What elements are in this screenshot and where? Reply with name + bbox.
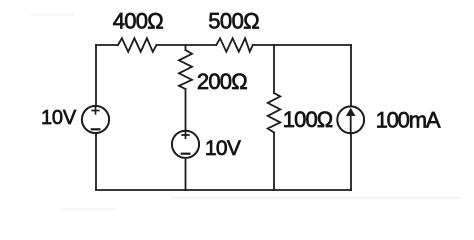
svg-text:10V: 10V [205, 137, 241, 160]
I1 arrow head [346, 108, 356, 116]
wire bottom (common node) [96, 189, 351, 191]
V2 plus sign [182, 132, 189, 139]
I1 arrow shaft [350, 112, 352, 132]
resistor R3 200ohm (vertical zigzag) [179, 50, 192, 89]
current source I1 100mA (circle) [337, 106, 364, 133]
wire left vertical lower [95, 134, 97, 190]
svg-text:10V: 10V [41, 107, 77, 129]
wire between R3 and V2 [185, 89, 187, 131]
V2 minus sign [182, 153, 190, 155]
svg-text:200Ω: 200Ω [197, 69, 247, 94]
svg-text:400Ω: 400Ω [113, 9, 164, 34]
voltage source V1 10V (circle) [82, 106, 109, 133]
svg-text:100mA: 100mA [376, 108, 441, 133]
wire right vertical upper [350, 45, 352, 107]
resistor R2 500ohm (horizontal zigzag) [216, 38, 253, 51]
wire stub top of R3 [185, 45, 187, 50]
wire below R4 [273, 133, 275, 191]
svg-text:100Ω: 100Ω [283, 107, 333, 132]
voltage source V2 10V (circle) [172, 131, 199, 158]
wire top-right (node between R2 and top-right corner, junction to R4 at x=274) [253, 44, 351, 46]
V1 minus sign [92, 128, 100, 130]
V1 plus sign [92, 107, 99, 114]
wire stub top of R4 [273, 45, 275, 93]
wire below V2 [185, 159, 187, 191]
wire left vertical upper [95, 45, 97, 106]
wire top-middle (node between R1 and R2, junction to R3 at x=185.5) [157, 44, 217, 46]
resistor R1 400ohm (horizontal zigzag) [118, 38, 157, 52]
svg-text:500Ω: 500Ω [208, 9, 259, 34]
faint scan streak lower area [30, 14, 460, 210]
resistor R4 100ohm (vertical zigzag) [268, 93, 281, 133]
wire right vertical lower [350, 134, 352, 190]
wire top-left (from left corner to R1) [96, 44, 118, 46]
